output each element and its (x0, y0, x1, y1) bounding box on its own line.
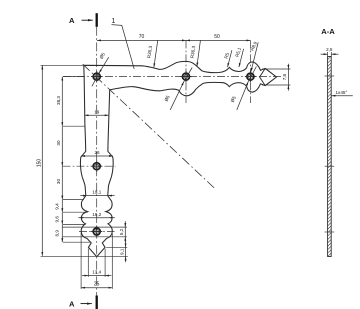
svg-text:A-A: A-A (321, 27, 335, 36)
dim 9.1 (125, 242, 127, 248)
svg-text:R5,1: R5,1 (234, 47, 242, 58)
chamfer leader 1x45 (332, 95, 353, 97)
ext line y212 (63, 211, 88, 213)
section A-A bar (328, 57, 332, 257)
chain dim 9.6 (61, 212, 63, 224)
svg-text:150: 150 (37, 159, 43, 168)
leader R5.1 (239, 49, 244, 67)
dim 7.8 (287, 64, 289, 69)
chain dim 30 b (61, 166, 63, 199)
svg-text:A: A (69, 16, 75, 25)
svg-text:70: 70 (139, 34, 145, 40)
section marker A top (96, 13, 98, 27)
svg-text:9,4: 9,4 (55, 203, 60, 210)
leader dia5 corner (99, 57, 109, 73)
hole4 horizontal centerline (63, 165, 116, 167)
chain dim 30 a (61, 126, 63, 166)
svg-text:Ø5: Ø5 (230, 95, 238, 103)
svg-text:13,4: 13,4 (92, 270, 101, 275)
ext line y199 (63, 199, 83, 201)
hole H2 (183, 73, 190, 80)
svg-text:26: 26 (94, 150, 100, 155)
svg-text:9,1: 9,1 (120, 248, 125, 255)
hole H1 corner (93, 73, 100, 80)
svg-text:Ø5: Ø5 (99, 52, 107, 60)
hole H3 (247, 73, 254, 80)
leader R8.9 (251, 42, 258, 71)
hole H5 bottom (93, 228, 100, 235)
svg-text:9,6: 9,6 (55, 216, 60, 223)
svg-text:30: 30 (56, 179, 61, 185)
section marker A bottom (96, 296, 98, 309)
spear diamond left edges (260, 68, 266, 85)
dim 2.5 (321, 53, 328, 55)
chain dim 8.9 (61, 224, 63, 242)
dim 13.4 (82, 275, 88, 277)
hole2 vertical centerline (185, 40, 187, 103)
svg-text:8,9: 8,9 (55, 230, 60, 237)
dim 50 (186, 39, 250, 41)
svg-text:R5: R5 (223, 52, 230, 60)
ext bottom point (41, 255, 128, 257)
dim 19.1 (80, 195, 87, 197)
svg-text:R36,3: R36,3 (190, 45, 197, 58)
svg-text:7,8: 7,8 (282, 73, 287, 80)
horizontal arm centerline (63, 76, 282, 78)
chain dim 9.4 (61, 200, 63, 213)
svg-text:R36,3: R36,3 (146, 45, 153, 58)
svg-text:A: A (69, 299, 75, 308)
section bar ticks (325, 75, 335, 77)
dim 25 (81, 287, 112, 289)
svg-text:2,5: 2,5 (326, 47, 333, 52)
hole5 horizontal centerline (79, 231, 115, 233)
hole3 vertical centerline (249, 40, 251, 103)
svg-text:19: 19 (94, 110, 100, 115)
ext line y126 (63, 125, 85, 127)
svg-text:19,2: 19,2 (92, 212, 101, 217)
leader R36.3 a (154, 41, 158, 68)
leader dia5 hole2 (170, 82, 184, 110)
svg-text:Ø5: Ø5 (163, 94, 171, 102)
miter centerline 45deg (83, 64, 215, 188)
svg-text:19,1: 19,1 (92, 190, 101, 195)
svg-text:1x45°: 1x45° (336, 90, 348, 95)
leader R36.3 b (197, 41, 201, 67)
svg-text:1: 1 (111, 18, 115, 25)
svg-text:25: 25 (94, 282, 100, 288)
ext line y224 (63, 223, 86, 225)
svg-text:30: 30 (56, 140, 61, 146)
svg-text:5,2: 5,2 (119, 228, 124, 235)
dim 26 (81, 155, 113, 157)
chain dim 38.3 (61, 77, 63, 127)
svg-text:50: 50 (214, 34, 220, 40)
svg-text:38,3: 38,3 (56, 96, 61, 105)
leader item 1 (112, 25, 135, 69)
ext line y242 notch (63, 241, 91, 243)
ext line hole1 center (63, 76, 84, 78)
leader R5 (228, 50, 232, 67)
dim 5.2 (124, 221, 126, 227)
dim 19 inside arm (85, 114, 109, 116)
section cut line A-A vertical (96, 27, 98, 296)
dim 19.2 (78, 217, 84, 219)
leader dia5 hole3 (237, 82, 249, 110)
dim 70 (97, 39, 186, 41)
dim 150 (41, 65, 43, 256)
hole H4 mid (93, 163, 100, 170)
part outline (80, 61, 276, 256)
ext top edge (41, 64, 84, 66)
